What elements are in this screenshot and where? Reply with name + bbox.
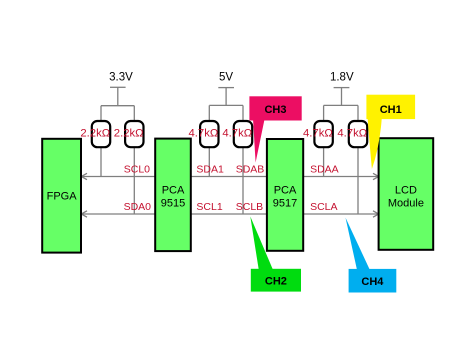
svg-text:5V: 5V (219, 72, 233, 84)
svg-text:PCA: PCA (274, 184, 297, 196)
svg-text:4.7kΩ: 4.7kΩ (188, 127, 218, 139)
svg-text:4.7kΩ: 4.7kΩ (337, 127, 367, 139)
svg-text:SDA1: SDA1 (196, 164, 224, 176)
svg-text:SCL1: SCL1 (196, 201, 222, 213)
svg-text:4.7kΩ: 4.7kΩ (222, 127, 252, 139)
svg-text:SDAB: SDAB (236, 164, 265, 176)
svg-text:3.3V: 3.3V (109, 72, 133, 84)
svg-text:CH1: CH1 (380, 104, 402, 116)
svg-text:Module: Module (388, 198, 424, 210)
svg-text:FPGA: FPGA (47, 191, 78, 203)
svg-text:2.2kΩ: 2.2kΩ (80, 127, 110, 139)
svg-text:SCLB: SCLB (236, 201, 263, 213)
svg-text:SCL0: SCL0 (124, 164, 150, 176)
svg-text:CH2: CH2 (265, 276, 287, 288)
svg-text:SDAA: SDAA (310, 164, 339, 176)
svg-text:9517: 9517 (273, 198, 297, 210)
svg-text:4.7kΩ: 4.7kΩ (303, 127, 333, 139)
svg-text:9515: 9515 (161, 198, 185, 210)
svg-text:CH4: CH4 (361, 276, 384, 288)
svg-text:PCA: PCA (162, 184, 185, 196)
svg-text:1.8V: 1.8V (330, 72, 354, 84)
svg-text:2.2kΩ: 2.2kΩ (114, 127, 144, 139)
svg-text:SCLA: SCLA (310, 201, 337, 213)
svg-text:SDA0: SDA0 (124, 201, 152, 213)
svg-text:CH3: CH3 (264, 104, 286, 116)
svg-text:LCD: LCD (395, 184, 417, 196)
